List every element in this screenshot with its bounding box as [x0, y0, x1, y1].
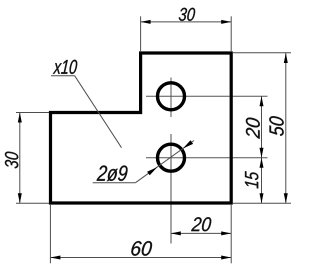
- centerline hole2 horizontal: [146, 157, 268, 159]
- arrow 30 top left: [141, 20, 151, 24]
- dimension line 60 bottom: [50, 257, 231, 259]
- extension line bottom right: [230, 205, 232, 263]
- arrow 20 right top: [260, 96, 264, 106]
- arrow 15 bottom: [260, 193, 264, 203]
- arrow 15 top: [260, 158, 264, 168]
- centerline hole1 horizontal: [146, 95, 268, 97]
- arrow 60 left: [50, 256, 60, 260]
- label x10: [53, 60, 77, 74]
- arrow 20 bottom left: [171, 231, 181, 235]
- label 20 bottom: [191, 217, 211, 231]
- extension line right top: [233, 52, 291, 54]
- extension line top right: [230, 16, 232, 52]
- arrow 50 top: [284, 53, 288, 63]
- note x10 leader: [75, 76, 122, 148]
- label 30 left: [5, 152, 18, 169]
- arrow 50 bottom: [284, 193, 288, 203]
- extension line right bottom: [233, 202, 291, 204]
- arrow 20 bottom right: [221, 231, 231, 235]
- dimension line 15 right: [261, 158, 263, 204]
- arrow 30 top right: [221, 20, 231, 24]
- dimension line 30 left: [19, 113, 21, 204]
- plate outline: [51, 53, 232, 203]
- extension line bottom left: [49, 205, 51, 263]
- label 60: [131, 241, 152, 256]
- hole 2 (lower): [158, 144, 185, 171]
- dimension line 30 top: [141, 21, 232, 23]
- arrow d9 upper-right: [183, 140, 193, 148]
- extension line left bottom: [16, 202, 49, 204]
- hole 1 (upper): [158, 83, 185, 110]
- arrow d9 lower-left: [147, 167, 157, 175]
- label 15: [245, 171, 258, 188]
- label 20 right: [246, 118, 260, 139]
- extension line left top: [16, 112, 49, 114]
- note x10 shelf: [51, 75, 75, 77]
- extension line top left: [140, 16, 142, 52]
- leader 2d9 diameter line: [135, 141, 194, 183]
- dimension line 20 bottom: [171, 232, 231, 234]
- dimension line 50 right: [285, 53, 287, 203]
- dimension line 20 right: [261, 96, 263, 157]
- label 2d9: [97, 165, 128, 181]
- label 50: [269, 116, 283, 136]
- arrow 30 left top: [18, 113, 22, 123]
- centerline hole2 vertical: [170, 134, 172, 244]
- arrow 60 right: [221, 256, 231, 260]
- arrow 30 left bottom: [18, 193, 22, 203]
- label 2d9 shelf: [93, 182, 136, 184]
- arrow 20 right bottom: [260, 148, 264, 158]
- centerline hole1 vertical: [170, 78, 172, 118]
- label 30 top: [179, 8, 195, 21]
